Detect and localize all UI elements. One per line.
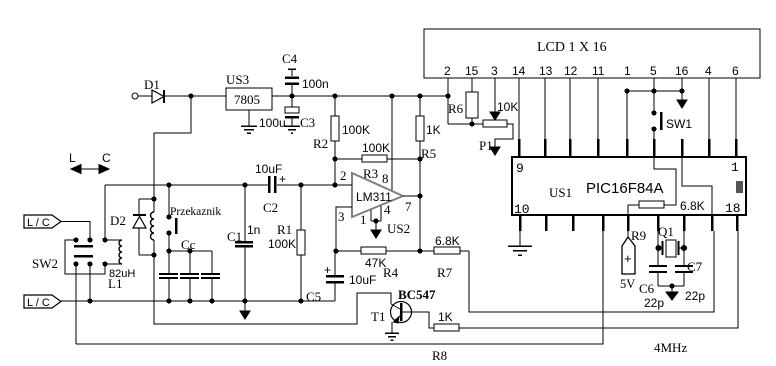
- node rail R5: [417, 93, 422, 98]
- svg-text:4: 4: [705, 64, 712, 78]
- svg-text:BC547: BC547: [398, 287, 436, 302]
- svg-text:+: +: [324, 263, 331, 277]
- wire relay bottom to T1: [154, 255, 391, 324]
- svg-text:C5: C5: [306, 289, 321, 304]
- resistor R5: [416, 96, 441, 161]
- svg-text:1K: 1K: [438, 310, 453, 324]
- svg-text:R1: R1: [277, 222, 292, 237]
- inductor L1: [105, 240, 135, 291]
- capacitor C2: [255, 162, 286, 215]
- display LCD 1 X 16: [424, 29, 760, 78]
- svg-text:8: 8: [382, 171, 389, 186]
- wire pin8 of U2 to rail: [391, 96, 393, 190]
- wire LCD pins 1-5-16 bus: [624, 88, 684, 93]
- node 5V at C4: [289, 93, 294, 98]
- node C2-R2: [332, 182, 337, 187]
- svg-text:15: 15: [465, 64, 479, 78]
- svg-text:L / C: L / C: [27, 217, 50, 229]
- svg-text:3: 3: [338, 209, 345, 224]
- svg-text:14: 14: [512, 64, 526, 78]
- resistor R8 1K: [432, 231, 738, 363]
- svg-text:Cc: Cc: [181, 237, 196, 252]
- node relay contact top: [166, 182, 171, 187]
- svg-text:C7: C7: [687, 259, 703, 274]
- switch SW2: [32, 237, 108, 274]
- wire 5V rail: [272, 95, 448, 97]
- wire raw supply down to relay rail: [154, 96, 191, 199]
- svg-text:Q1: Q1: [658, 224, 674, 239]
- svg-text:6.8K: 6.8K: [435, 234, 460, 248]
- diode D2: [110, 199, 146, 255]
- capacitor C3: [259, 96, 315, 133]
- svg-text:R8: R8: [432, 348, 447, 363]
- svg-text:5: 5: [650, 64, 657, 78]
- node rail pin2: [445, 93, 450, 98]
- svg-text:4MHz: 4MHz: [654, 340, 687, 355]
- svg-text:PIC16F84A: PIC16F84A: [586, 180, 664, 197]
- relay contact SW: [166, 185, 176, 251]
- svg-text:1: 1: [624, 64, 631, 78]
- svg-text:L1: L1: [108, 276, 122, 291]
- svg-text:9: 9: [516, 161, 524, 176]
- node rail C1: [242, 298, 247, 303]
- svg-text:10K: 10K: [497, 100, 518, 114]
- internal wire pin5 to 6.8K: [654, 157, 676, 205]
- ground under US3: [241, 110, 257, 133]
- svg-text:4: 4: [384, 202, 391, 217]
- ground arrow below C1: [240, 301, 250, 319]
- ground arrow under C6 C7: [658, 283, 684, 300]
- wire SW2 right pole up to C2 row: [104, 185, 106, 240]
- svg-text:R2: R2: [313, 136, 328, 151]
- diode D1: [144, 77, 164, 103]
- svg-text:22p: 22p: [644, 296, 664, 310]
- node output-R4: [417, 248, 422, 253]
- wires LCD data columns to PIC: [519, 78, 736, 157]
- svg-text:C2: C2: [263, 200, 278, 215]
- svg-text:100u: 100u: [259, 116, 286, 130]
- svg-text:R5: R5: [421, 146, 436, 161]
- svg-text:100K: 100K: [362, 141, 390, 155]
- svg-text:Przekaznik: Przekaznik: [170, 206, 221, 218]
- PIC bottom pin stubs: [520, 215, 737, 231]
- relay coil Przekaznik: [139, 196, 221, 257]
- svg-text:16: 16: [675, 64, 689, 78]
- svg-text:100K: 100K: [342, 123, 370, 137]
- svg-text:R6: R6: [448, 101, 464, 116]
- svg-text:13: 13: [539, 64, 553, 78]
- svg-text:1K: 1K: [426, 123, 441, 137]
- node R2-R3: [332, 156, 337, 161]
- wire output pin7: [403, 195, 420, 197]
- wire inverting input row: [105, 184, 352, 186]
- ground at PIC pin10: [508, 231, 532, 255]
- resistor R1: [268, 185, 305, 301]
- svg-text:R7: R7: [437, 265, 453, 280]
- svg-text:C6: C6: [639, 281, 655, 296]
- capacitor C6: [639, 248, 667, 310]
- switch SW1: [651, 78, 692, 157]
- svg-text:C: C: [102, 151, 111, 165]
- node C1 top: [242, 182, 247, 187]
- svg-text:C4: C4: [282, 51, 298, 66]
- node output: [417, 193, 422, 198]
- svg-text:P1: P1: [479, 138, 493, 153]
- svg-text:10: 10: [514, 202, 530, 217]
- wire LCD pin2 column: [447, 78, 449, 124]
- input terminal J1: [132, 93, 138, 99]
- svg-text:L: L: [69, 151, 76, 165]
- svg-text:L / C: L / C: [27, 297, 50, 309]
- svg-text:T1: T1: [371, 309, 385, 324]
- svg-text:LCD 1 X 16: LCD 1 X 16: [537, 40, 607, 55]
- svg-text:7: 7: [405, 199, 412, 214]
- wire D1 to US3: [165, 95, 226, 97]
- svg-text:18: 18: [725, 201, 741, 216]
- svg-text:100n: 100n: [302, 77, 329, 91]
- svg-text:12: 12: [564, 64, 578, 78]
- regulator US3 7805: [226, 72, 272, 110]
- resistor R6: [448, 78, 478, 124]
- svg-text:SW1: SW1: [666, 117, 692, 131]
- transistor T1 BC547: [371, 287, 436, 340]
- flag terminal L/C bottom: [24, 295, 61, 309]
- pins 1 and 4 of US2 to ground arrow: [371, 206, 410, 238]
- svg-text:SW2: SW2: [32, 256, 58, 271]
- node R1 top: [298, 182, 303, 187]
- resistor 6.8K internal: [628, 199, 705, 215]
- svg-text:+: +: [624, 251, 632, 266]
- capacitor C1: [227, 185, 260, 301]
- svg-text:100K: 100K: [268, 237, 296, 251]
- svg-text:US1: US1: [549, 185, 572, 200]
- crystal Q1: [654, 224, 687, 355]
- svg-text:US2: US2: [387, 221, 410, 236]
- wire measure rail y301: [61, 300, 335, 302]
- wire SW2 left pole down to bottom bus: [75, 264, 77, 344]
- flag terminal L/C top: [24, 215, 90, 240]
- wire R5 node down to output node: [419, 159, 421, 251]
- svg-text:US3: US3: [226, 72, 249, 87]
- capacitor C5: [306, 251, 376, 304]
- supply arrow at pin16: [677, 78, 687, 108]
- node R3-R5: [417, 156, 422, 161]
- wire SW2 mid pole down to measure rail: [89, 264, 91, 301]
- svg-text:1: 1: [731, 160, 739, 175]
- svg-text:6: 6: [732, 64, 739, 78]
- svg-text:5V: 5V: [620, 277, 635, 291]
- node rail pin8: [389, 93, 394, 98]
- svg-text:1: 1: [360, 212, 367, 227]
- label L-C arrow: [69, 151, 111, 174]
- svg-text:10uF: 10uF: [349, 273, 376, 287]
- svg-text:R4: R4: [383, 265, 399, 280]
- wire comparator row y251 with resistors: [336, 250, 469, 252]
- node pin3-C5: [333, 248, 338, 253]
- internal wire to pin18 column: [682, 157, 712, 215]
- svg-text:22p: 22p: [685, 289, 705, 303]
- op-amp US2 LM311: [338, 168, 412, 227]
- svg-text:3: 3: [491, 64, 498, 78]
- resistor R3: [335, 141, 420, 181]
- wire input to D1: [138, 95, 152, 97]
- resistor R7 6.8K: [434, 234, 460, 280]
- microcontroller US1 PIC16F84A: [512, 157, 746, 217]
- resistor R4 47K: [361, 247, 399, 280]
- svg-text:2: 2: [444, 64, 451, 78]
- potentiometer P1: [448, 78, 518, 155]
- node measure rail SW2: [87, 298, 92, 303]
- svg-text:C1: C1: [227, 229, 242, 244]
- capacitor bank Cc: [159, 237, 220, 304]
- node raw supply junction: [188, 93, 193, 98]
- capacitor C7: [675, 248, 705, 303]
- wire pin3 of US2: [336, 207, 352, 251]
- svg-text:1n: 1n: [247, 223, 260, 237]
- resistor R2: [313, 96, 370, 185]
- svg-text:D1: D1: [144, 77, 160, 92]
- node rail R2: [332, 93, 337, 98]
- PIC top pin stubs: [519, 139, 736, 157]
- svg-text:6.8K: 6.8K: [680, 199, 705, 213]
- svg-text:7805: 7805: [234, 92, 260, 107]
- node rail R1: [298, 298, 303, 303]
- svg-text:D2: D2: [110, 213, 126, 228]
- svg-text:10uF: 10uF: [255, 162, 282, 176]
- battery R9 5V: [620, 228, 646, 291]
- svg-text:C3: C3: [300, 115, 315, 130]
- capacitor C4: [282, 51, 329, 96]
- wire bottom bus to PIC: [76, 231, 603, 344]
- wire R7 down and across to PIC pin: [469, 231, 714, 312]
- svg-text:2: 2: [340, 168, 347, 183]
- svg-text:11: 11: [592, 64, 605, 78]
- svg-text:R9: R9: [631, 228, 646, 243]
